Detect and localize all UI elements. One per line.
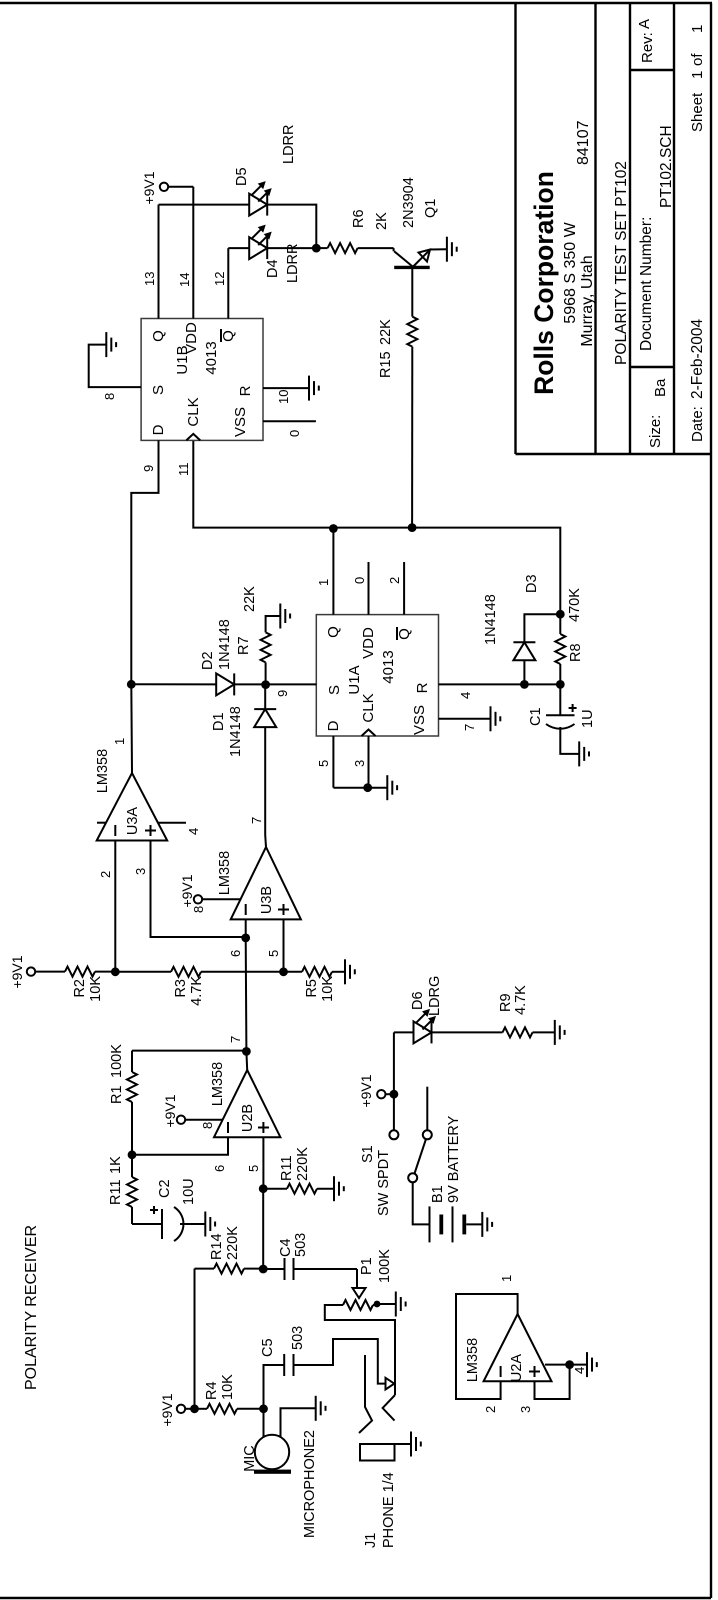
node (pin3/pin6 net): [241, 934, 250, 943]
svg-text:10K: 10K: [88, 976, 104, 1002]
svg-text:R8: R8: [568, 643, 584, 662]
wire net to CLK U1B: [193, 440, 412, 527]
op-amp U2A: [465, 1314, 552, 1382]
svg-text:14: 14: [177, 273, 192, 287]
wire out to D1: [264, 727, 266, 835]
svg-text:10K: 10K: [320, 976, 336, 1002]
potentiometer P1 wiper arrow: [353, 1249, 394, 1298]
microphone MIC: [242, 1430, 318, 1538]
svg-text:0: 0: [352, 577, 367, 584]
node (R/D3): [520, 680, 529, 689]
svg-text:D6: D6: [410, 991, 426, 1010]
wire node to R11 node: [262, 1189, 264, 1269]
wire S1 contact: [393, 1094, 395, 1130]
svg-text:SW SPDT: SW SPDT: [376, 1150, 392, 1216]
svg-text:4: 4: [186, 828, 201, 835]
LED D5: [234, 125, 297, 216]
svg-text:Rev:: Rev:: [639, 32, 656, 63]
terminal +9V1 (U3B): [179, 874, 206, 913]
svg-text:PT102.SCH: PT102.SCH: [658, 125, 675, 208]
jack arm B: [383, 1395, 395, 1421]
svg-text:1K: 1K: [108, 1156, 124, 1174]
stub U3A pin4: [158, 823, 201, 835]
svg-text:U3B: U3B: [259, 886, 275, 914]
LED D4: [249, 225, 301, 283]
svg-text:22K: 22K: [378, 319, 394, 345]
svg-text:D2: D2: [200, 651, 216, 670]
node (R8/D3/net): [556, 610, 565, 619]
svg-text:7: 7: [249, 817, 264, 824]
node N9 (D1/D2/R7/S): [261, 680, 270, 689]
svg-text:Date:: Date:: [689, 406, 706, 442]
svg-text:R: R: [414, 682, 431, 693]
wire U3A out to U1B D: [131, 440, 158, 684]
wire: [376, 1304, 396, 1305]
svg-text:9: 9: [275, 690, 290, 697]
wire: [560, 727, 579, 754]
U1B pin Q (13): [142, 205, 167, 342]
svg-text:R3: R3: [173, 979, 189, 998]
terminal +9V1 (U2B): [162, 1094, 215, 1129]
resistor R7: [236, 586, 271, 663]
svg-text:2: 2: [98, 871, 113, 878]
resistor R9 vertical: [498, 985, 533, 1038]
ground (J1): [411, 1432, 421, 1457]
svg-text:100K: 100K: [109, 1044, 125, 1078]
resistor R11 220K: [263, 1147, 334, 1194]
svg-text:POLARITY TEST SET PT102: POLARITY TEST SET PT102: [613, 161, 630, 365]
wire: [131, 683, 216, 685]
svg-text:5968 S 350 W: 5968 S 350 W: [562, 221, 579, 323]
U1B pin R (10): [237, 385, 309, 404]
svg-text:C5: C5: [260, 1338, 276, 1357]
svg-text:R7: R7: [236, 636, 252, 655]
wire emitter: [430, 248, 447, 250]
wire node A to C5: [264, 1365, 285, 1409]
svg-text:1N4148: 1N4148: [228, 706, 244, 757]
svg-text:8: 8: [200, 1122, 215, 1129]
svg-text:4013: 4013: [380, 650, 397, 683]
svg-text:8: 8: [191, 906, 206, 913]
svg-text:R5: R5: [304, 979, 320, 998]
heading POLARITY RECEIVER: [23, 1225, 40, 1390]
svg-text:LDRG: LDRG: [427, 976, 443, 1016]
capacitor C4: [278, 1233, 309, 1280]
wire to crossover net: [412, 528, 560, 615]
svg-text:1: 1: [689, 25, 706, 33]
wire: [185, 1119, 222, 1121]
svg-text:S: S: [150, 385, 167, 395]
svg-text:R1: R1: [109, 1085, 125, 1104]
wire U2A pin2 feedback: [456, 1275, 533, 1413]
wire U3B pin6: [228, 919, 246, 957]
wire: [180, 1223, 205, 1225]
node (R11/R1/pin6): [128, 1150, 137, 1159]
ground (R9): [555, 1020, 565, 1045]
svg-text:+9V1: +9V1: [9, 955, 25, 988]
svg-text:1: 1: [316, 579, 331, 586]
wire: [395, 1443, 412, 1445]
capacitor C2 polarized: [150, 1178, 197, 1241]
diode D3: [483, 574, 540, 660]
svg-text:1: 1: [499, 1275, 514, 1282]
op-amp U3A: [95, 749, 167, 841]
svg-text:0: 0: [287, 430, 302, 437]
svg-text:VSS: VSS: [411, 705, 428, 735]
svg-text:503: 503: [290, 1326, 306, 1350]
stub U3A pin8: [97, 822, 107, 824]
svg-text:POLARITY RECEIVER: POLARITY RECEIVER: [23, 1225, 40, 1390]
wire U2A pin4: [545, 1365, 587, 1374]
svg-text:CLK: CLK: [360, 693, 377, 722]
svg-text:5: 5: [316, 760, 331, 767]
svg-text:13: 13: [142, 272, 157, 286]
node (+9V1/S1/D6): [390, 1090, 399, 1099]
svg-text:Murray, Utah: Murray, Utah: [579, 255, 596, 346]
switch S1 SPDT: [360, 1087, 432, 1216]
wire: [294, 1268, 358, 1270]
wire C5 to jack tip: [294, 1339, 386, 1384]
battery B1 9V: [430, 1115, 467, 1242]
svg-text:A: A: [636, 19, 653, 29]
wire: [432, 1031, 503, 1033]
svg-text:220K: 220K: [295, 1147, 311, 1181]
svg-text:100K: 100K: [377, 1249, 393, 1283]
resistor R2: [65, 967, 104, 1002]
svg-text:2-Feb-2004: 2-Feb-2004: [689, 318, 706, 399]
wire: [533, 1031, 555, 1033]
jack J1 sleeve: [360, 1444, 397, 1548]
ground (U1A VSS): [491, 706, 501, 731]
op-amp U2B: [210, 1062, 280, 1137]
U1A pin Q (1): [316, 529, 342, 638]
wire pin6 drop: [132, 1137, 228, 1172]
svg-text:R4: R4: [204, 1381, 220, 1400]
svg-text:J1: J1: [363, 1533, 379, 1548]
ground (R7): [280, 604, 290, 629]
svg-text:9: 9: [141, 465, 156, 472]
transistor Q1 2N3904: [394, 177, 439, 267]
svg-text:VDD: VDD: [183, 322, 200, 354]
jack tip triangle: [386, 1378, 395, 1390]
wire U2B output: [228, 1036, 247, 1070]
svg-text:Size:: Size:: [647, 415, 664, 448]
U1A pin Qbar (2): [387, 562, 413, 640]
capacitor C5: [260, 1326, 306, 1376]
svg-text:VDD: VDD: [360, 627, 377, 659]
wire: [559, 664, 561, 684]
U1B pin CLK (11): [176, 463, 191, 477]
wire: [195, 1268, 215, 1270]
svg-text:P1: P1: [359, 1257, 375, 1275]
svg-text:U2B: U2B: [240, 1104, 256, 1132]
wire: [131, 1155, 133, 1177]
title block frame: [516, 3, 712, 454]
wire D3 branch: [523, 660, 525, 684]
ground (C2): [205, 1212, 215, 1237]
svg-text:470K: 470K: [567, 588, 583, 622]
potentiometer P1 body: [340, 1300, 376, 1310]
wire: [244, 1268, 263, 1270]
svg-text:2: 2: [483, 1406, 498, 1413]
svg-text:Q: Q: [325, 626, 342, 638]
svg-text:R9: R9: [498, 993, 514, 1012]
svg-text:D5: D5: [234, 167, 250, 186]
svg-text:10U: 10U: [181, 1178, 197, 1205]
resistor R5: [302, 967, 336, 1002]
U1B clock wedge: [185, 397, 202, 440]
wire: [234, 683, 265, 685]
wire S1 common to B1: [413, 1182, 430, 1224]
wire: [195, 1408, 208, 1410]
svg-text:D: D: [150, 424, 167, 435]
ground (P1): [396, 1292, 406, 1317]
svg-text:4.7K: 4.7K: [513, 985, 529, 1015]
svg-text:Ba: Ba: [652, 378, 669, 397]
svg-text:LM358: LM358: [465, 1338, 481, 1382]
resistor R6: [328, 209, 390, 253]
wire: [358, 247, 394, 249]
svg-text:3: 3: [352, 760, 367, 767]
wire: [466, 1223, 482, 1225]
svg-text:D: D: [325, 720, 342, 731]
node (pin5/R11 220K): [259, 1184, 268, 1193]
node (U2B out/R1): [242, 1047, 251, 1056]
ground (MIC): [316, 1396, 326, 1421]
wire: [95, 971, 115, 973]
svg-text:+9V1: +9V1: [162, 1094, 178, 1127]
wire: [115, 971, 171, 973]
ground (C1): [579, 741, 589, 766]
U1A clock wedge: [360, 693, 377, 736]
svg-text:3: 3: [518, 1406, 533, 1413]
title text company: [529, 120, 596, 394]
wire: [267, 247, 316, 249]
U1A pin D (5): [316, 720, 342, 787]
wire: [263, 1268, 284, 1270]
svg-text:+9V1: +9V1: [141, 171, 157, 204]
wire D6 branch: [394, 1031, 414, 1033]
ground (U1A D/CLK): [387, 775, 397, 800]
wire U3A pin2 tap: [98, 841, 115, 972]
terminal +9V1 (divider): [9, 955, 35, 988]
node (net/Q1A): [329, 524, 338, 533]
terminal +9V1 (U1B VDD): [141, 171, 193, 204]
svg-text:of: of: [689, 53, 706, 66]
wire U2A pin3: [535, 1365, 570, 1399]
LED D6: [410, 976, 443, 1044]
wire: [356, 1269, 358, 1288]
wire U2B pin5: [246, 1137, 263, 1189]
node (+9V1 rail junction): [190, 1404, 199, 1413]
title text document: [613, 161, 630, 365]
svg-text:MIC: MIC: [242, 1445, 258, 1472]
resistor R15: [378, 317, 417, 378]
ground (U1B R): [309, 376, 319, 401]
svg-text:R2: R2: [72, 979, 88, 998]
wire U3B output: [249, 817, 266, 847]
wire: [559, 614, 561, 634]
U1A pin S (9): [266, 684, 343, 697]
wire: [35, 971, 65, 973]
svg-text:1N4148: 1N4148: [217, 619, 233, 670]
U1B pin VSS (0): [232, 407, 316, 437]
diode D2: [200, 619, 234, 695]
wire: [267, 205, 316, 249]
svg-text:5: 5: [246, 1165, 261, 1172]
svg-text:1: 1: [112, 738, 127, 745]
wire: [524, 683, 560, 685]
resistor R11 1K: [108, 1156, 137, 1224]
svg-text:C1: C1: [528, 707, 544, 726]
resistor R4: [204, 1374, 237, 1414]
svg-text:Q: Q: [396, 628, 413, 640]
svg-text:C4: C4: [278, 1238, 294, 1257]
wire U3B pin5 tap: [266, 919, 284, 971]
svg-text:Q: Q: [150, 330, 167, 342]
svg-text:U1A: U1A: [346, 665, 363, 694]
svg-text:U3A: U3A: [125, 807, 141, 836]
svg-text:4013: 4013: [203, 341, 220, 374]
svg-text:S: S: [326, 685, 343, 695]
svg-text:S1: S1: [360, 1145, 376, 1163]
node (D4/D5/R6): [312, 244, 321, 253]
svg-text:10: 10: [276, 390, 291, 404]
svg-text:3: 3: [133, 868, 148, 875]
jack arm A: [359, 1355, 372, 1433]
wire: [264, 685, 266, 709]
wire: [284, 971, 303, 973]
wire MIC to node A: [263, 1409, 265, 1437]
diode D1: [211, 706, 276, 757]
svg-text:Sheet: Sheet: [689, 92, 706, 132]
svg-text:LM358: LM358: [210, 1062, 226, 1106]
node (R3/R5/U3B pin5): [279, 967, 288, 976]
svg-text:4: 4: [572, 1367, 587, 1374]
U1A pin VSS (7): [411, 705, 491, 735]
svg-text:1N4148: 1N4148: [483, 594, 499, 645]
svg-text:R6: R6: [351, 209, 367, 228]
terminal +9V1 (R4 rail): [159, 1393, 185, 1426]
ground (R11 220K): [334, 1176, 344, 1201]
wire: [332, 971, 345, 973]
wire C2 branch: [132, 1223, 162, 1225]
resistor R3: [171, 967, 205, 1006]
svg-text:U2A: U2A: [509, 1354, 525, 1383]
wire U2B out net: [245, 938, 248, 1052]
svg-text:CLK: CLK: [185, 397, 202, 426]
wire collector: [411, 267, 413, 280]
svg-text:B1: B1: [430, 1185, 446, 1203]
svg-text:LDRR: LDRR: [285, 244, 301, 283]
wire +9V1 rail to R14: [194, 1269, 196, 1409]
svg-text:VSS: VSS: [232, 407, 249, 437]
svg-text:MICROPHONE2: MICROPHONE2: [302, 1430, 318, 1538]
svg-text:Document Number:: Document Number:: [638, 217, 655, 351]
svg-text:4.7K: 4.7K: [189, 976, 205, 1006]
wire R1 to U2B out: [132, 1050, 246, 1052]
wire N9 to R7: [265, 662, 267, 684]
svg-text:R11: R11: [279, 1155, 295, 1181]
svg-text:R: R: [237, 385, 254, 396]
U1A pin CLK (3): [352, 736, 369, 788]
svg-text:D4: D4: [265, 259, 281, 278]
wire: [237, 1408, 264, 1410]
svg-text:6: 6: [212, 1165, 227, 1172]
node (R8/C1): [556, 680, 565, 689]
svg-text:Q1: Q1: [423, 199, 439, 218]
node (U2A pin3/pin4): [565, 1360, 574, 1369]
svg-text:7: 7: [228, 1036, 243, 1043]
svg-text:LDRR: LDRR: [281, 125, 297, 164]
svg-text:9V BATTERY: 9V BATTERY: [446, 1115, 462, 1203]
svg-text:503: 503: [293, 1233, 309, 1257]
U1B pin S (8): [89, 345, 167, 400]
svg-text:22K: 22K: [242, 586, 258, 612]
ground (Q1 emitter): [447, 237, 457, 262]
title text date row: [689, 25, 706, 442]
wire: [185, 1408, 194, 1410]
svg-text:PHONE 1/4: PHONE 1/4: [381, 1472, 397, 1548]
svg-text:D1: D1: [211, 712, 227, 731]
wire D-CLK tie: [333, 787, 387, 789]
svg-text:8: 8: [102, 393, 117, 400]
svg-text:R11: R11: [108, 1179, 124, 1205]
svg-text:R15: R15: [378, 351, 394, 378]
IC U1B 4013 box: [141, 319, 263, 441]
wire R7 to gnd: [266, 616, 281, 632]
resistor R1: [109, 1044, 137, 1155]
IC U1A 4013 box: [316, 615, 438, 736]
svg-text:7: 7: [462, 724, 477, 731]
ground (U1B S): [106, 332, 116, 357]
svg-text:Q: Q: [220, 330, 237, 342]
wire: [386, 1093, 394, 1095]
node (R2/R3/U3A pin2): [111, 967, 120, 976]
op-amp U3B: [217, 847, 301, 919]
wire U3A pin3: [133, 841, 246, 938]
ground (U2A): [587, 1352, 597, 1377]
wire: [411, 280, 413, 317]
node (D/CLK gnd): [363, 783, 372, 792]
node (net/R15): [408, 523, 417, 532]
wire MIC to ground: [281, 1408, 316, 1437]
node A (R4/C5/MIC): [259, 1404, 268, 1413]
node (U3A out/D2): [127, 680, 136, 689]
svg-text:84107: 84107: [575, 120, 592, 165]
U1B pin D (9): [141, 424, 167, 492]
resistor R14: [209, 1226, 244, 1274]
svg-text:2K: 2K: [374, 212, 390, 230]
U1B pin VDD (14): [177, 187, 193, 319]
svg-text:D3: D3: [524, 574, 540, 593]
svg-text:5: 5: [266, 950, 281, 957]
svg-text:Rolls Corporation: Rolls Corporation: [529, 171, 559, 395]
U1B pin Qbar (12): [212, 248, 237, 342]
node (R14/C4/pin5 net): [259, 1265, 268, 1274]
wire U3A output: [112, 684, 132, 773]
svg-text:+9V1: +9V1: [179, 874, 195, 907]
svg-text:C2: C2: [157, 1179, 173, 1198]
svg-text:+9V1: +9V1: [159, 1393, 175, 1426]
resistor R8: [555, 588, 584, 664]
svg-text:1U: 1U: [580, 709, 596, 728]
title text size row: [636, 19, 675, 448]
wire: [202, 898, 241, 900]
svg-text:10K: 10K: [220, 1374, 236, 1400]
svg-text:2: 2: [387, 577, 402, 584]
wire: [201, 971, 284, 973]
